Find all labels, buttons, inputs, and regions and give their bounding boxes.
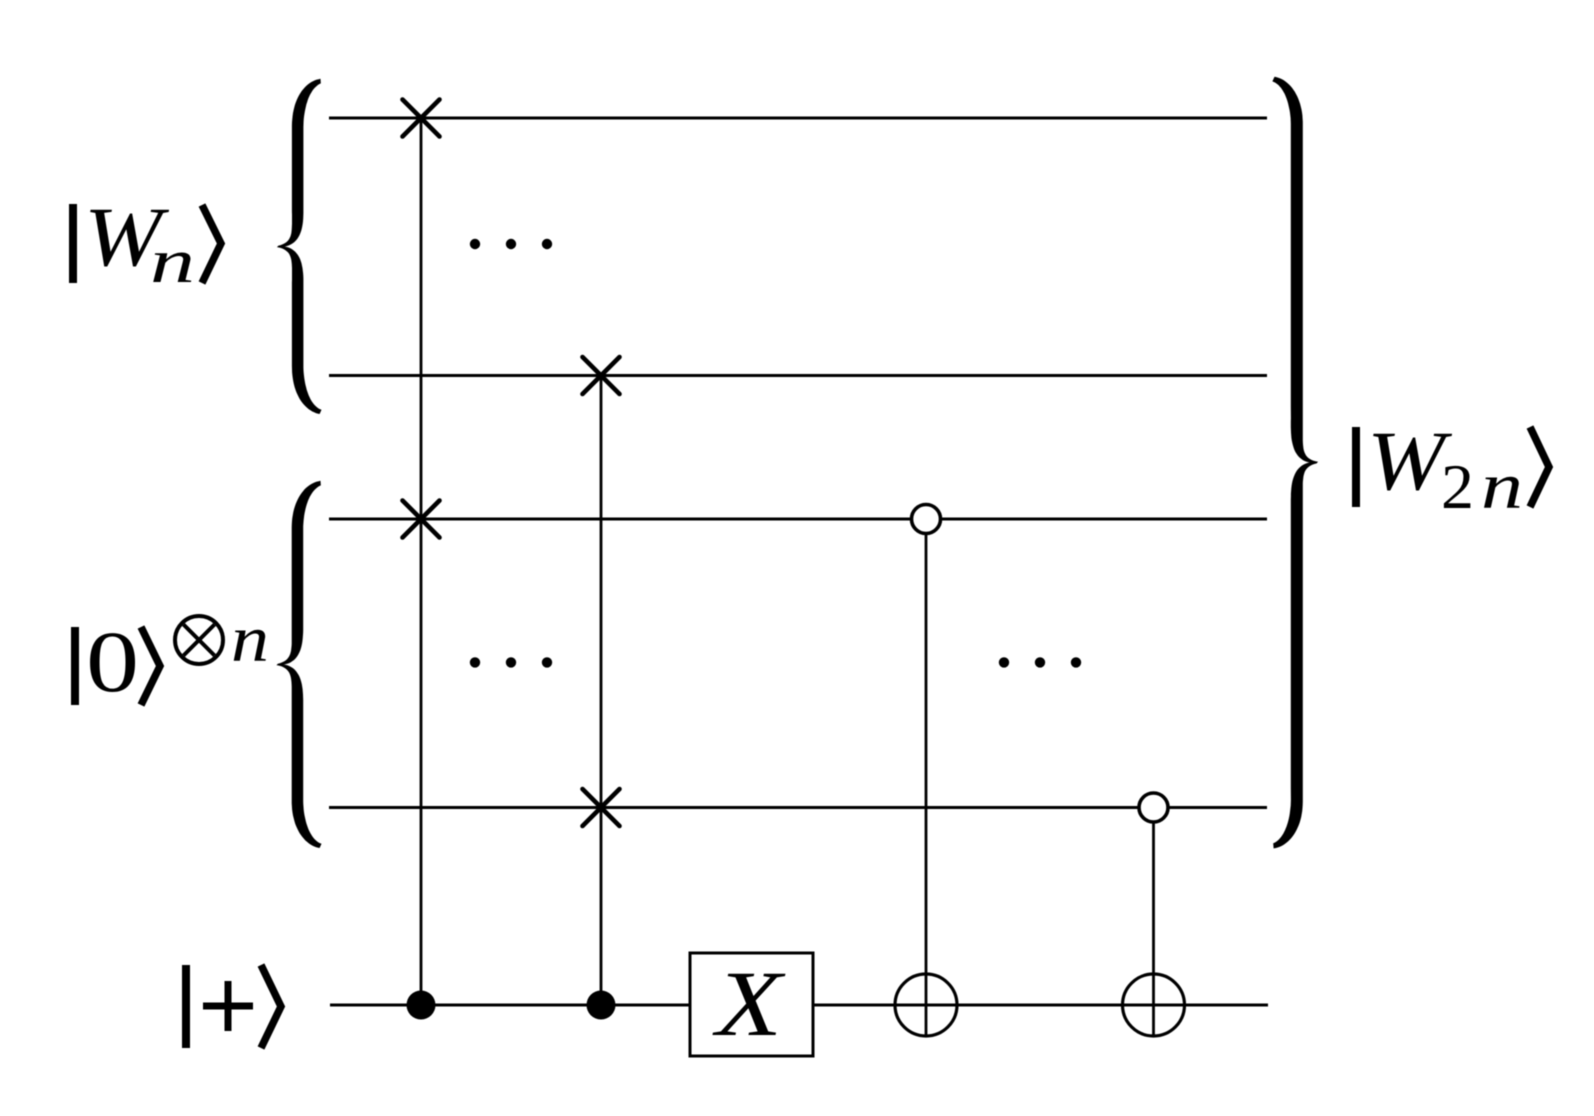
- svg-text:X: X: [711, 953, 785, 1056]
- svg-text:0: 0: [86, 614, 139, 710]
- svg-text:n: n: [150, 228, 195, 296]
- svg-text:2: 2: [1441, 451, 1474, 522]
- svg-text:n: n: [1481, 450, 1523, 523]
- svg-text:n: n: [231, 603, 269, 676]
